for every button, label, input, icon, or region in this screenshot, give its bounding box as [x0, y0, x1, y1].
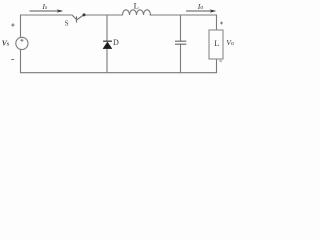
wire top-left from source to switch — [21, 15, 73, 38]
load box — [209, 30, 223, 59]
junction dot after switch — [83, 13, 86, 16]
svg-text:L: L — [214, 39, 219, 48]
inductor L coil — [123, 10, 151, 15]
svg-text:D: D — [113, 38, 119, 47]
wire inductor to top-right corner down to load — [150, 15, 217, 30]
source Vs circle — [16, 37, 28, 49]
plus terminal label (source) — [11, 23, 14, 26]
wire bottom rail — [21, 50, 217, 73]
minus terminal label (source) — [11, 59, 14, 61]
current arrow Io — [186, 9, 216, 12]
svg-text:L: L — [134, 1, 139, 11]
plus terminal label (load) — [220, 22, 223, 25]
diode D — [103, 41, 112, 48]
minus terminal label (load) — [219, 60, 221, 62]
current arrow Is — [30, 9, 64, 12]
wire diode branch vertical — [106, 15, 108, 41]
svg-text:S: S — [65, 20, 69, 28]
switch S (transistor-style) — [72, 15, 84, 23]
wire after switch to inductor — [84, 14, 123, 16]
source Vs internal plus — [20, 39, 23, 42]
capacitor C plates — [175, 41, 186, 44]
wire capacitor branch vertical — [180, 15, 182, 41]
